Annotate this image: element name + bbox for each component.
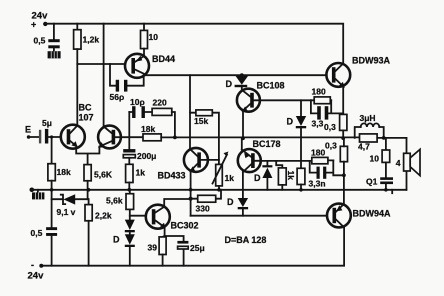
label BC 107 <box>79 103 94 123</box>
svg-text:180: 180 <box>311 148 325 158</box>
svg-text:-: - <box>31 260 34 270</box>
svg-text:107: 107 <box>79 113 94 123</box>
svg-text:BC178: BC178 <box>253 139 281 149</box>
ground chassis midline <box>32 190 44 200</box>
diode D bias column upper <box>287 100 307 168</box>
svg-text:5,6k: 5,6k <box>106 196 123 206</box>
potentiometer 1k <box>213 152 235 192</box>
node +24V terminal <box>31 11 48 30</box>
svg-text:D: D <box>254 173 261 183</box>
capacitor 200u <box>123 149 156 164</box>
node 5,6K to midline <box>87 188 91 192</box>
wire +24V trunk to diff pair collector <box>103 24 105 127</box>
svg-text:2,2k: 2,2k <box>95 211 112 221</box>
svg-text:1,2k: 1,2k <box>83 35 100 45</box>
transistor Q BD44 <box>125 54 175 78</box>
svg-text:4,7: 4,7 <box>358 142 370 152</box>
transistor Q BC302 <box>130 199 199 231</box>
resistor 5,6K <box>84 165 113 200</box>
svg-text:D: D <box>113 235 120 245</box>
svg-text:D: D <box>227 197 234 207</box>
svg-text:18k: 18k <box>57 167 71 177</box>
svg-text:BDW94A: BDW94A <box>353 209 392 219</box>
wire BC178 base line <box>261 160 310 162</box>
wire BD433 emitter column <box>190 171 192 216</box>
svg-text:0,3: 0,3 <box>325 141 337 151</box>
diode D to BDW94A base <box>227 197 248 216</box>
transistor Q BC107 <box>61 125 85 149</box>
svg-text:+: + <box>31 20 36 30</box>
resistor 1,2k <box>74 24 100 49</box>
resistor 10 <box>141 24 159 56</box>
svg-text:0,3: 0,3 <box>324 122 336 132</box>
svg-text:BC302: BC302 <box>171 221 199 231</box>
wire bottom -24V rail <box>41 227 345 265</box>
transistor Q BD433 <box>158 148 219 181</box>
svg-text:25μ: 25μ <box>190 243 205 253</box>
wire BC108 base line <box>260 99 311 101</box>
resistor 180 upper <box>311 87 331 104</box>
wire top +24V rail <box>45 24 343 64</box>
resistor 330 <box>191 190 221 214</box>
speaker 4 ohm <box>396 138 420 190</box>
wire BC107 collector column <box>76 49 78 125</box>
node midline left terminal <box>30 188 35 193</box>
wire feedback node column <box>128 112 130 149</box>
svg-text:1k: 1k <box>225 173 235 183</box>
resistor 5,6k lower <box>106 190 134 210</box>
capacitor 25u <box>165 236 205 266</box>
svg-text:39: 39 <box>148 243 158 253</box>
svg-text:D: D <box>287 117 294 127</box>
wire 18k tap <box>51 137 53 164</box>
svg-text:10: 10 <box>149 32 159 42</box>
svg-text:180: 180 <box>312 87 326 97</box>
wire diff base to feedback <box>121 136 143 138</box>
wire BC178 emitter to output <box>241 138 243 149</box>
svg-text:220: 220 <box>153 98 167 108</box>
svg-text:10ρ: 10ρ <box>130 97 145 107</box>
svg-text:200μ: 200μ <box>137 151 156 161</box>
svg-text:D=BA 128: D=BA 128 <box>225 235 267 245</box>
inductor 3uH <box>355 113 384 138</box>
svg-text:BD433: BD433 <box>158 171 186 181</box>
diode D above BC108 <box>226 73 249 89</box>
capacitor 10p <box>129 97 152 118</box>
resistor 10 zobel <box>370 138 390 177</box>
transistor Q BDW93A <box>326 56 390 88</box>
ground chassis top-left <box>48 51 61 58</box>
svg-text:3,3: 3,3 <box>312 119 324 129</box>
svg-text:0,5: 0,5 <box>31 228 43 238</box>
svg-text:18k: 18k <box>141 124 155 134</box>
node -24V terminal <box>28 260 45 282</box>
svg-text:3,3n: 3,3n <box>309 179 326 189</box>
capacitor 3,3n <box>309 160 345 188</box>
wire BDW94A base line <box>191 215 327 217</box>
svg-text:56ρ: 56ρ <box>110 92 125 102</box>
svg-text:3μH: 3μH <box>360 113 376 123</box>
transistor Q BC108 <box>237 81 285 139</box>
svg-text:BC108: BC108 <box>257 81 285 91</box>
svg-text:D: D <box>226 79 233 89</box>
diode zener 9,1v <box>52 194 89 217</box>
resistor 4,7 <box>358 134 377 152</box>
resistor 18k input <box>48 164 71 228</box>
svg-text:Q1: Q1 <box>366 177 378 187</box>
wire output midline <box>161 136 406 139</box>
node input E <box>25 125 31 139</box>
resistor 1k feedback shunt <box>126 164 146 191</box>
resistor 0,3 lower <box>325 138 348 204</box>
svg-text:1k: 1k <box>136 168 146 178</box>
svg-text:E: E <box>25 125 31 135</box>
svg-text:4: 4 <box>396 158 401 168</box>
svg-text:10: 10 <box>370 154 380 164</box>
svg-text:330: 330 <box>196 204 210 214</box>
resistor 1k at BC178 base <box>276 161 296 190</box>
transistor Q BDW94A <box>327 204 391 228</box>
resistor 39 <box>148 227 167 266</box>
transistor Q diff pair right <box>98 126 121 149</box>
wire BC178 collector column <box>242 172 244 198</box>
capacitor 0,5 top decoupling <box>34 24 60 52</box>
resistor 220 <box>152 98 175 138</box>
capacitor 56p <box>110 64 144 102</box>
resistor 2,2k <box>85 199 112 266</box>
svg-text:24v: 24v <box>28 271 45 282</box>
svg-text:15k: 15k <box>194 116 208 126</box>
resistor 180 lower <box>310 148 334 164</box>
svg-text:5,6K: 5,6K <box>94 170 113 180</box>
wire BD44 collector down column <box>189 75 191 149</box>
capacitor 0,5 bottom <box>31 227 58 266</box>
resistor 15k <box>190 110 219 164</box>
wire mid ground line <box>32 189 407 191</box>
resistor 18k feedback <box>141 124 161 141</box>
capacitor 5u input <box>29 118 61 144</box>
resistor 0,3 upper <box>324 86 347 140</box>
diode D at BC178 base <box>254 161 272 190</box>
svg-text:BDW93A: BDW93A <box>352 56 391 66</box>
capacitor 3,3 <box>311 100 343 128</box>
transistor Q BC178 <box>238 139 281 172</box>
diode D2 bias <box>113 232 135 265</box>
svg-text:BC: BC <box>79 103 92 113</box>
resistor 1k lower bias column <box>297 168 305 191</box>
svg-text:5μ: 5μ <box>42 118 52 128</box>
capacitor Q1 zobel <box>366 177 393 192</box>
svg-text:9,1 v: 9,1 v <box>57 207 76 217</box>
wire stub below midline <box>391 190 393 193</box>
wire diff pair emitter bus <box>76 146 99 165</box>
svg-text:0,5: 0,5 <box>34 36 46 46</box>
svg-text:BD44: BD44 <box>152 54 175 64</box>
diode D1 bias <box>125 209 135 232</box>
wire BD44 collector line to BDW93A base <box>146 74 327 76</box>
svg-text:1k: 1k <box>286 171 296 181</box>
wire BD44 base line <box>77 63 125 65</box>
